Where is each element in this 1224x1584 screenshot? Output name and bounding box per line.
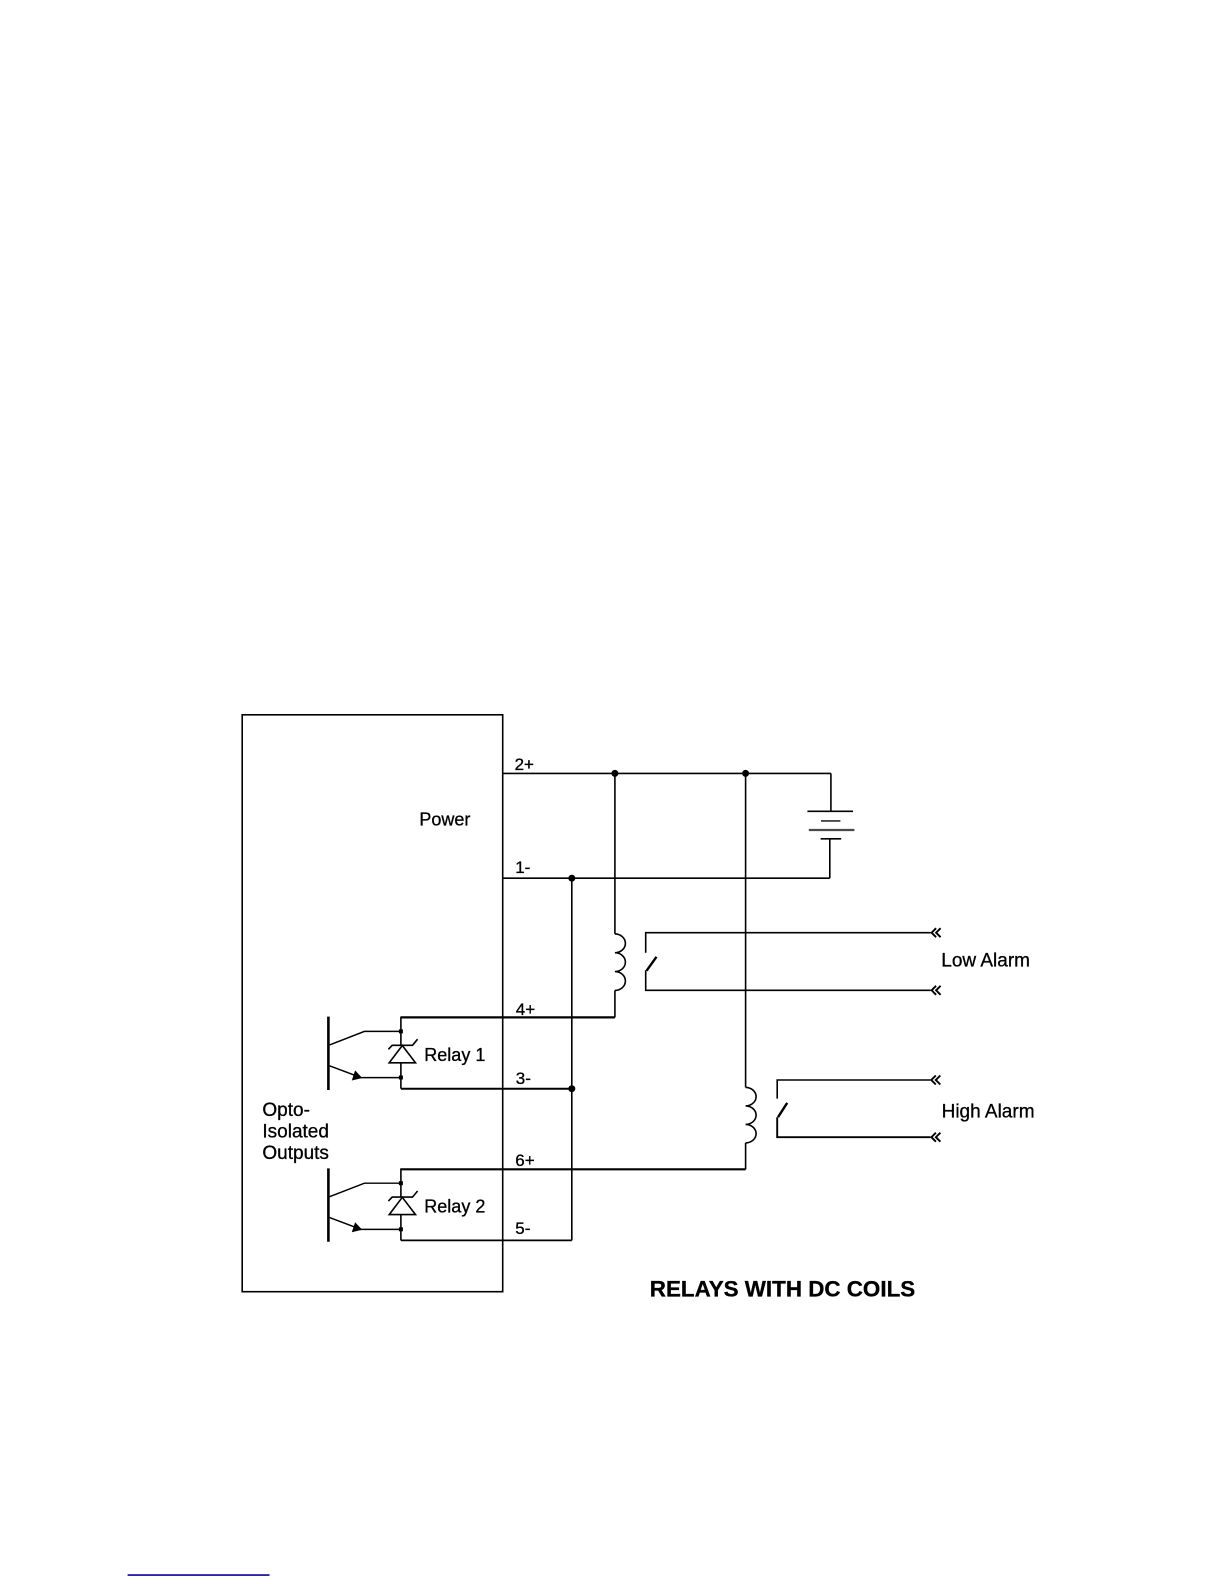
zener diode D2 bottom lead — [400, 1215, 402, 1230]
svg-text:5-: 5- — [515, 1219, 530, 1238]
relay coil K1 (Low Alarm) — [615, 934, 626, 991]
node junction on 2+ at x745.6 — [742, 770, 749, 777]
node junction on 2+ at x615 — [611, 770, 618, 777]
opto-isolator U3 emitter bar (Relay 2 channel) — [327, 1168, 330, 1241]
wire arrow to node — [360, 1077, 401, 1079]
opto U3 collector lead — [330, 1183, 401, 1197]
node junction on 1- at x571.8 — [568, 875, 575, 882]
battery BT1 bottom lead — [829, 839, 831, 878]
node junction 3- on vertical — [568, 1085, 575, 1092]
opto U2 emitter lead — [330, 1066, 357, 1076]
zener diode D2 top lead — [400, 1183, 402, 1197]
zener diode D2 cathode bar with bent ends — [388, 1191, 417, 1201]
wire coil K1 bottom to 4+ — [614, 990, 616, 1017]
relay coil K2 (High Alarm) — [746, 1087, 757, 1143]
opto U2 collector lead — [330, 1031, 401, 1045]
svg-text:2+: 2+ — [515, 755, 534, 774]
wire vertical from 2+ to relay coil K2 — [745, 773, 747, 1087]
switch S1 moving contact and bottom wire — [646, 970, 931, 990]
zener diode D1 cathode bar with bent ends — [388, 1039, 417, 1049]
switch S1 blade — [647, 957, 657, 971]
wire vertical net 1-/3-/5- — [571, 878, 573, 1240]
wire 6+ rail (bold) — [401, 1168, 746, 1170]
opto U3 emitter arrowhead — [352, 1222, 362, 1232]
connector chevron top S2 — [931, 1076, 940, 1085]
wire 4+ rail (bold) — [401, 1016, 615, 1018]
zener diode D1 bottom lead — [400, 1063, 402, 1078]
wire vertical from 2+ to relay coil K1 — [614, 773, 616, 934]
svg-text:6+: 6+ — [515, 1151, 534, 1170]
svg-text:Relay 2: Relay 2 — [424, 1197, 485, 1217]
wire 4+ corner down to node — [400, 1017, 402, 1032]
wire coil K2 bottom to 6+ — [745, 1143, 747, 1169]
switch S2 moving contact and bottom wire — [777, 1117, 930, 1137]
wire 2+ rail — [503, 772, 831, 774]
wire arrow to node — [360, 1228, 401, 1230]
wire 6+ corner down to node — [400, 1168, 402, 1183]
svg-text:Low Alarm: Low Alarm — [941, 950, 1030, 971]
node square bottom (Relay 1) — [399, 1076, 403, 1080]
svg-text:Outputs: Outputs — [262, 1143, 329, 1164]
connector chevron bottom S1 — [932, 986, 941, 995]
switch S2 blade — [778, 1103, 787, 1117]
zener diode D1 anode triangle — [389, 1046, 415, 1063]
svg-text:Isolated: Isolated — [262, 1121, 329, 1142]
opto-isolator U2 emitter bar (Relay 1 channel) — [327, 1017, 330, 1090]
zener diode D2 anode triangle — [389, 1197, 415, 1214]
svg-text:1-: 1- — [515, 858, 530, 877]
switch S1 (Low Alarm) fixed contact — [646, 933, 931, 953]
svg-text:RELAYS WITH DC COILS: RELAYS WITH DC COILS — [650, 1277, 915, 1302]
svg-text:4+: 4+ — [516, 1000, 535, 1019]
svg-text:High Alarm: High Alarm — [942, 1101, 1035, 1122]
switch S2 (High Alarm) fixed contact — [777, 1080, 930, 1099]
wire 3- rail — [401, 1088, 572, 1090]
wire 5- rail — [401, 1239, 572, 1241]
wire 1- rail — [503, 877, 830, 879]
connector chevron top S1 — [932, 928, 941, 937]
connector chevron bottom S2 — [931, 1133, 940, 1142]
opto U3 emitter lead — [330, 1218, 357, 1228]
node square bottom (Relay 2) — [399, 1227, 403, 1231]
battery BT1 top lead — [830, 773, 832, 811]
svg-text:Relay 1: Relay 1 — [424, 1045, 485, 1065]
zener diode D1 top lead — [400, 1031, 402, 1045]
opto U2 emitter arrowhead — [352, 1070, 362, 1080]
footer rule (blue) — [128, 1574, 270, 1576]
node square top (Relay 2) — [399, 1181, 403, 1185]
svg-text:Power: Power — [419, 810, 470, 830]
wire node down to 3- — [400, 1078, 402, 1089]
wire node down to 5- — [400, 1229, 402, 1240]
power box U1 outline — [242, 715, 503, 1292]
node square top (Relay 1) — [399, 1029, 403, 1033]
svg-text:Opto-: Opto- — [262, 1100, 310, 1121]
battery BT1 plates — [807, 810, 853, 812]
svg-text:3-: 3- — [516, 1069, 531, 1088]
